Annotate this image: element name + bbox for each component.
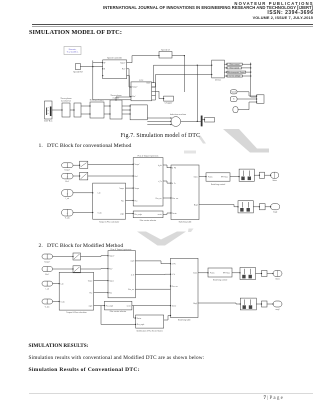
svg-text:Flux: Flux [109,293,112,295]
svg-text:Flux*: Flux* [132,96,136,98]
demux scope block 1 [239,169,254,181]
svg-text:I_ab: I_ab [97,193,101,195]
footer page number [264,396,283,401]
rate limiter block [159,52,172,59]
svg-text:Flux*: Flux* [135,176,139,178]
svg-text:Speed Ref: Speed Ref [73,72,83,74]
svg-text:d_phi: d_phi [130,261,135,263]
wire feedback trunk [93,60,131,99]
hysteresis block [133,158,163,206]
from tag voltage [233,107,238,113]
inport 3 I_ab [62,190,73,197]
wires to motor [147,118,171,125]
svg-text:Ts = 5e-005 s.: Ts = 5e-005 s. [67,51,79,53]
svg-text:DTC: DTC [139,80,144,82]
demux scope block 1 [240,268,256,280]
svg-text:Braking chopper: Braking chopper [90,100,105,102]
svg-text:RF Pulses: RF Pulses [221,176,228,178]
svg-text:Torque*: Torque* [132,86,138,89]
svg-text:Flux_sec: Flux_sec [128,289,134,291]
svg-text:Switching control: Switching control [213,279,228,282]
svg-text:d_Phi: d_Phi [172,264,177,266]
wire gain2 to hysteresis [88,175,133,177]
outport mag2 [271,204,280,210]
svg-text:transformer: transformer [61,100,72,103]
demux scope block 2 [238,201,253,213]
svg-text:1: 1 [47,257,48,259]
gain block 2 [80,172,88,180]
wire bar to display [202,119,204,121]
svg-text:Chopper: Chopper [165,103,173,105]
svg-text:3: 3 [67,193,68,195]
svg-text:Torque: Torque [109,279,114,282]
svg-text:N*: N* [104,62,106,64]
svg-text:Torque: Torque [119,187,124,190]
speed feedback riser [196,65,198,121]
wire mag2 long [198,303,240,304]
svg-text:Flux sector selector: Flux sector selector [110,310,127,313]
machine interface block [130,105,147,120]
rectifier block [74,103,81,117]
svg-text:V_abc: V_abc [61,301,66,303]
figure 1: Simulink model of DTC [44,40,266,134]
svg-text:4: 4 [47,302,48,304]
svg-text:d_Phi: d_Phi [172,168,177,170]
svg-text:Torque*: Torque* [135,163,141,166]
svg-text:Induction machine: Induction machine [170,113,187,116]
svg-text:Flux & Torque hysteresis: Flux & Torque hysteresis [111,248,132,251]
svg-text:Flux*: Flux* [65,181,69,183]
wire controller to rate limiter [127,56,159,63]
svg-text:3: 3 [47,284,48,286]
wire demux2 to unit delay2 [253,206,259,208]
wire demux1 to unit delay [254,174,259,176]
wire flux angle down to identification [101,306,136,325]
svg-text:1: 1 [67,165,68,167]
wire gain1 to hysteresis [81,255,109,258]
svg-text:4: 4 [67,213,68,215]
svg-text:Mag2: Mag2 [194,204,198,206]
svg-text:Torque: Torque [88,279,93,282]
torque flux calculator block [59,272,93,310]
svg-text:Flux*: Flux* [122,69,126,71]
inverter block [110,100,122,119]
watermark band A [223,129,269,153]
header line 2 [103,6,313,10]
svg-text:Flux_sec: Flux_sec [156,198,162,200]
identification block [136,315,164,328]
induction motor circle [171,117,181,127]
svg-text:Gates: Gates [272,179,277,182]
wire gain2 to hysteresis [81,268,109,270]
port arrows fig3 [59,255,274,325]
svg-text:Speed ref: Speed ref [161,50,170,52]
figure 3: DTC block modified [35,246,285,334]
wire demux2 to unit delay2 [256,303,261,305]
wire to outport gates [267,273,273,275]
svg-text:Flux*: Flux* [109,268,113,270]
inport 4 V_abc [42,299,53,304]
svg-text:angle: angle [89,305,93,307]
unit delay block 1 [262,271,268,277]
svg-text:~: ~ [47,112,49,115]
caption Fig.7 [121,133,201,139]
svg-text:N: N [104,69,105,71]
outport mag2 [273,301,282,307]
inport 3 I_ab [42,281,53,286]
flux sector selector block [133,211,163,218]
wire sector to switching table [132,305,171,307]
goto Electromagnetic Torque [227,71,246,73]
outport Gates [271,172,279,178]
RF pulses block [206,173,230,181]
svg-text:Torque*: Torque* [44,260,50,263]
svg-text:Flux & Torque hysteresis: Flux & Torque hysteresis [138,154,159,157]
svg-text:d_Te: d_Te [172,274,176,276]
svg-text:Pulses: Pulses [210,273,215,275]
svg-text:V_abc: V_abc [45,307,50,309]
figure 2: DTC block conventional [35,150,285,228]
from tag torque [230,97,237,102]
wire rate limiter to speed trunk [172,56,184,92]
svg-text:angle: angle [120,213,124,215]
svg-text:Gates: Gates [193,272,197,275]
wires hysteresis to switching table [163,165,171,214]
svg-text:Te: Te [233,99,235,101]
gain block 2 [73,266,81,273]
wire controller to DTC [127,69,131,97]
sector selector block [104,301,131,310]
svg-text:Torque & Flux calculator: Torque & Flux calculator [99,220,120,223]
outport Gates [273,271,282,277]
svg-text:Sector: Sector [172,212,177,215]
right trunk to scope [251,63,257,97]
heading: SIMULATION MODEL OF DTC: [29,30,122,36]
DTC block [131,82,152,101]
braking chopper block [90,102,104,118]
svg-text:Mag2: Mag2 [193,303,197,305]
bold sub heading [29,367,140,373]
wires hysteresis to switching table [135,261,170,289]
svg-text:Flux_sec: Flux_sec [172,198,178,200]
svg-text:Switching control: Switching control [211,183,226,186]
svg-text:Identification of Flux Sector: Identification of Flux Sector Stators [137,330,163,333]
svg-text:Rotor speed: Rotor speed [230,67,239,70]
svg-text:mag2: mag2 [275,309,279,311]
wire RF to demux1 [230,176,239,178]
inport 1 Torque* [42,254,53,259]
svg-text:Rotor current: Rotor current [230,63,240,66]
svg-text:Switching table: Switching table [179,221,192,224]
wires calculator to hysteresis [126,188,134,213]
wire gain1 to hysteresis [88,163,133,165]
svg-text:Sector: Sector [137,317,142,320]
torque flux calculator block [93,183,126,219]
goto DC bus voltage [227,75,242,77]
watermark streak A3 [184,151,196,154]
switching table block [171,165,199,220]
wire RF to demux1 [232,272,240,274]
wire speed ref to controller [80,66,102,68]
svg-text:Flux_angle: Flux_angle [106,305,114,307]
wire gates down to inverter [116,97,131,100]
demux scope block 2 [240,298,256,310]
svg-text:Flux sector selector: Flux sector selector [140,219,157,222]
wire mag2 long [199,205,238,207]
svg-text:Sector: Sector [172,304,177,307]
svg-text:Torque*: Torque* [64,168,70,171]
watermark V shape B [137,232,186,246]
svg-text:V_abc: V_abc [98,212,103,214]
wire down to identification [134,306,136,318]
transformer block [62,103,70,117]
unit delay block 1 [259,172,264,178]
wire calculator angle to sector selector [94,305,105,307]
scope block [257,95,264,104]
chopper fire block [164,96,174,101]
wire to outport mag2 [265,206,271,208]
gain block 1 [73,253,81,260]
wire to outport gates [265,174,271,176]
heading 2. DTC Block for Modified Method [39,243,124,249]
svg-text:Discrete,: Discrete, [69,48,77,51]
unit delay block 2 [259,204,265,210]
svg-text:d_Te: d_Te [131,274,135,276]
wire gates to RF [198,272,208,274]
svg-text:sector: sector [127,304,132,307]
demux measurement block [212,60,225,78]
wires calculator to hysteresis [94,281,108,293]
svg-text:Torque: Torque [135,187,140,190]
svg-text:Demux: Demux [215,79,221,81]
svg-text:600V Bus: 600V Bus [44,121,52,123]
svg-text:Torque*: Torque* [120,61,126,64]
svg-text:Speed Controller: Speed Controller [107,57,122,60]
heading SIMULATION RESULTS [29,343,89,349]
port arrows fig1 [61,55,257,125]
svg-text:I_ab: I_ab [60,283,64,285]
wire motor to bus bar [181,121,201,123]
svg-text:Flux: Flux [89,293,92,295]
svg-text:Flux_sec: Flux_sec [172,286,178,288]
svg-text:Flux_angle: Flux_angle [135,214,143,216]
inport 1 Torque* [62,163,73,168]
svg-text:RF Pulses: RF Pulses [223,273,230,275]
goto Rotor current [227,63,242,65]
speed controller block [103,60,127,79]
svg-text:Torque & Flux calculator: Torque & Flux calculator [66,311,87,314]
speed display [205,118,215,123]
svg-text:d_Te: d_Te [172,183,176,185]
svg-text:DC bus voltage: DC bus voltage [229,75,241,78]
goto Rotor speed [227,67,242,69]
svg-text:sector: sector [158,213,163,216]
wire gates to RF [199,176,206,178]
port arrows fig2 [79,164,271,214]
powergui block [64,47,81,55]
watermark tick B2 [188,229,194,233]
svg-text:d_Te: d_Te [158,181,162,183]
svg-text:inverter: inverter [113,97,120,100]
svg-text:Gates: Gates [194,175,198,178]
svg-text:2: 2 [47,270,48,272]
from tag speed [230,90,237,94]
unit delay block 2 [262,301,268,307]
svg-text:Pulses: Pulses [208,176,213,178]
svg-text:Flux: Flux [135,200,138,202]
inport 2 Flux* [42,267,53,272]
svg-text:Speed: Speed [231,92,236,94]
svg-text:V_abc: V_abc [65,218,70,220]
svg-text:Flux*: Flux* [45,274,49,276]
wire to outport mag2 [267,303,273,305]
bus selector bar [201,116,202,126]
svg-text:Switching table: Switching table [178,319,191,322]
svg-text:Gates: Gates [275,278,280,281]
hysteresis block [108,251,135,298]
wire DTC to demux [152,65,212,87]
svg-text:mag2: mag2 [273,212,277,214]
header separator rule [32,23,313,26]
watermark stroke A2 [198,136,207,144]
inport 4 V_abc [62,209,73,216]
wire identification to switching table [164,316,171,321]
switching table block [171,258,199,317]
header line 4 volume [253,17,313,21]
three-phase source block [45,101,53,119]
wire demux1 to unit delay [256,273,262,275]
svg-text:I_ab: I_ab [65,198,69,200]
svg-text:2: 2 [67,176,68,178]
svg-text:Flux_angle: Flux_angle [137,324,145,326]
DTC output stubs [152,83,156,100]
heading 1. DTC Block for conventional Method [39,143,132,149]
svg-text:Flux: Flux [121,200,124,202]
wire DTC to chopper control [156,91,164,98]
svg-text:d_phi: d_phi [158,165,163,167]
svg-text:I_ab: I_ab [45,289,49,291]
inport 2 Flux* [62,173,73,179]
header line 3 ISSN [267,11,313,16]
gain block 1 [80,161,88,168]
RF pulses block [208,268,232,277]
body text [29,355,205,361]
header line 1 [234,2,313,6]
speed ref constant [76,63,81,69]
footer rule [29,392,313,395]
svg-text:Torque*: Torque* [109,255,115,258]
